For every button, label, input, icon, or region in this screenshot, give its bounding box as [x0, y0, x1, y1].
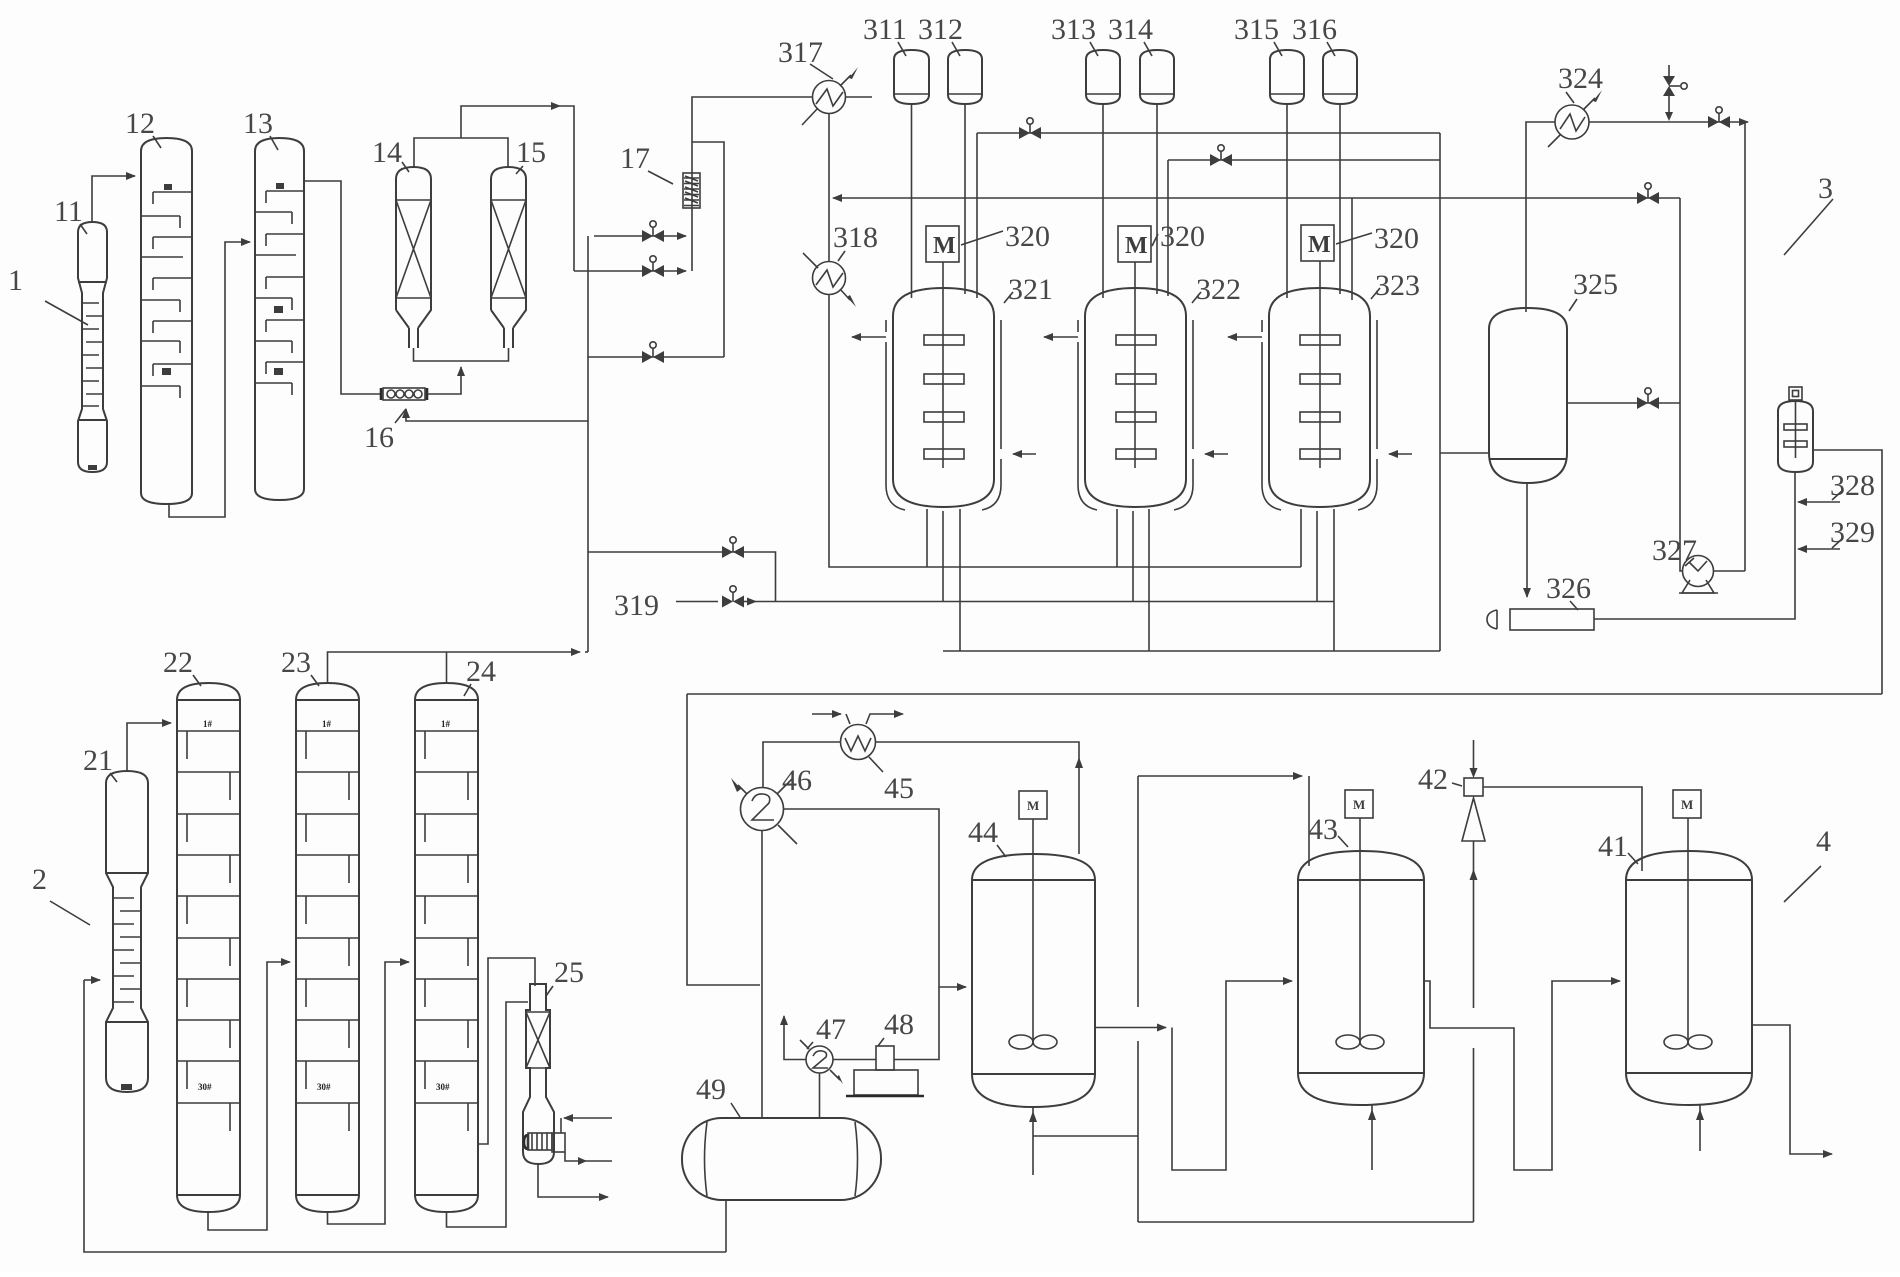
wire 313 to reactor 322 — [1102, 104, 1104, 298]
header B y160 with valve — [1168, 159, 1440, 161]
wire 14/15 top header riser to HX 317 — [414, 138, 508, 167]
cyclone 42 — [1462, 778, 1485, 841]
reactor 322 bottom pipes — [1116, 509, 1118, 567]
svg-text:1: 1 — [8, 264, 23, 297]
wire 49 bottom drain — [725, 1200, 727, 1252]
agitator shaft 322 — [1134, 262, 1136, 468]
svg-text:M: M — [933, 233, 956, 259]
HX 45 utility arrows — [812, 713, 841, 715]
svg-text:324: 324 — [1558, 62, 1603, 95]
svg-text:45: 45 — [884, 772, 914, 805]
svg-text:319: 319 — [614, 589, 659, 622]
svg-text:312: 312 — [918, 13, 963, 46]
wire 319 long header y601.5 — [756, 601, 1334, 603]
feed 329 — [1798, 548, 1840, 550]
reactor 323 — [1262, 288, 1377, 510]
svg-text:44: 44 — [968, 816, 998, 849]
pump 327 — [1679, 556, 1718, 594]
agitated vessel (sampling pot) — [1778, 387, 1813, 472]
wire 24 top stub — [446, 652, 448, 683]
HX 317 — [802, 67, 858, 125]
vessel 316 — [1323, 50, 1357, 104]
motor M3 (320) — [1301, 225, 1334, 261]
jacket arrows 321 — [852, 336, 886, 338]
wire 45 right to 44 dome — [876, 742, 1080, 854]
wire 318 to jacket heating line y567 — [829, 295, 1301, 568]
wire 16 bottom feed — [406, 409, 588, 421]
column 13 — [255, 138, 304, 500]
reactor 321 bottom pipes — [926, 509, 928, 567]
wire 46 bottom to 49 — [761, 831, 763, 1119]
HX 45 — [841, 725, 876, 760]
wire frame top y694 — [687, 693, 1882, 695]
vessel 311 — [894, 50, 929, 104]
motor M1 (320) — [926, 226, 959, 262]
svg-text:49: 49 — [696, 1073, 726, 1106]
wire 44 bottom drain — [1032, 1107, 1034, 1175]
wire 16 outlet to columns 14/15 bottom header — [427, 367, 461, 394]
agitator 43 — [1359, 818, 1361, 1042]
wire 23 bottom to column 24 — [328, 962, 410, 1224]
wire 326 right to riser x1795 — [1594, 472, 1795, 619]
wire 312 to reactor 321 — [964, 104, 966, 294]
wire 311 to reactor 321 — [911, 104, 913, 298]
wire 42 top feed — [1473, 740, 1475, 774]
valve V3 line y357 — [588, 356, 724, 358]
wire 45 left to 46 — [763, 742, 841, 787]
wire feed into 21 — [84, 979, 100, 981]
agitator shaft 323 — [1319, 261, 1321, 468]
svg-text:317: 317 — [778, 36, 823, 69]
svg-text:316: 316 — [1292, 13, 1337, 46]
wire frame left x687 down and over to 49 — [687, 694, 760, 985]
svg-text:315: 315 — [1234, 13, 1279, 46]
svg-text:320: 320 — [1160, 220, 1205, 253]
column 14 — [396, 167, 431, 348]
wire 324 line down to pump 327 — [1744, 122, 1746, 571]
svg-text:318: 318 — [833, 221, 878, 254]
wire 47 right to 48 — [833, 1059, 876, 1061]
HX 324 — [1548, 90, 1602, 147]
vessel 315 — [1270, 50, 1304, 104]
wire branch to riser x724 — [692, 142, 724, 357]
wire 316 to reactor 323 — [1339, 104, 1341, 294]
svg-text:25: 25 — [554, 956, 584, 989]
wire 43 right to 41 left — [1424, 981, 1620, 1170]
svg-text:1#: 1# — [203, 719, 213, 729]
blower lines — [564, 1117, 612, 1119]
svg-text:13: 13 — [243, 107, 273, 140]
svg-text:323: 323 — [1375, 269, 1420, 302]
agitator shaft 321 — [942, 262, 944, 468]
svg-text:22: 22 — [163, 646, 193, 679]
wire 23 top stub to riser — [328, 652, 581, 683]
svg-text:24: 24 — [466, 655, 496, 688]
svg-text:2: 2 — [32, 863, 47, 896]
column 25 with blower — [523, 984, 565, 1164]
svg-text:320: 320 — [1005, 220, 1050, 253]
svg-text:326: 326 — [1546, 572, 1591, 605]
agitator 41 — [1687, 818, 1689, 1042]
reactor 323 bottom pipes — [1300, 509, 1302, 567]
svg-text:21: 21 — [83, 744, 113, 777]
svg-text:30#: 30# — [436, 1082, 450, 1092]
agitator 44 — [1032, 819, 1034, 1042]
HX 47 — [800, 1040, 843, 1084]
wire 41 right product out — [1752, 1025, 1832, 1154]
column 12 — [141, 138, 192, 504]
svg-text:311: 311 — [863, 13, 907, 46]
wire 24 bottom to column 25 feed — [447, 1002, 529, 1227]
column 15 — [491, 167, 526, 348]
wire 317 to 318 — [828, 114, 830, 262]
wire 41 bottom drain — [1699, 1105, 1701, 1151]
svg-text:48: 48 — [884, 1008, 914, 1041]
vessel 312 — [948, 50, 982, 104]
wire 13 side outlet to mixer 16 — [304, 181, 381, 394]
wire 314 to reactor 322 — [1156, 104, 1158, 294]
wire 324 left to 325 top — [1526, 122, 1555, 312]
vessel 325 — [1489, 308, 1567, 483]
wire 43 bottom drain — [1371, 1105, 1373, 1170]
wire 46 right to 44 feed — [784, 809, 967, 987]
svg-text:325: 325 — [1573, 268, 1618, 301]
wire 48 to 44 feed line — [894, 987, 939, 1060]
vessel 313 — [1086, 50, 1120, 104]
header A y133 with valve — [977, 132, 1440, 134]
svg-text:23: 23 — [281, 646, 311, 679]
svg-text:41: 41 — [1598, 830, 1628, 863]
svg-text:313: 313 — [1051, 13, 1096, 46]
valve on 324 line — [1708, 107, 1730, 128]
column 24 — [415, 683, 478, 1212]
svg-text:12: 12 — [125, 107, 155, 140]
wire 11 top to column 12 feed — [92, 176, 135, 222]
svg-text:17: 17 — [620, 142, 650, 175]
svg-text:30#: 30# — [317, 1082, 331, 1092]
wire 21 top to column 22 — [127, 723, 171, 771]
svg-text:M: M — [1027, 798, 1039, 813]
wire 47 left vent — [784, 1016, 806, 1060]
drum 49 — [682, 1118, 881, 1200]
svg-text:1#: 1# — [322, 719, 332, 729]
reactor 322 — [1078, 288, 1193, 510]
svg-text:314: 314 — [1108, 13, 1153, 46]
column 23 — [296, 683, 359, 1212]
wire pump ports — [1714, 570, 1746, 572]
svg-text:4: 4 — [1816, 825, 1831, 858]
valve V1 line y236 — [594, 235, 686, 237]
wire 315 to reactor 323 — [1286, 104, 1288, 298]
jacket arrows 322 — [1044, 336, 1078, 338]
mixer 16 — [381, 388, 427, 400]
wire 325 bottom to 326 — [1526, 483, 1528, 597]
drum 326 — [1487, 609, 1594, 630]
motor M44 — [1019, 791, 1047, 819]
wire recycle riser x1440 — [1439, 133, 1441, 651]
svg-text:M: M — [1125, 233, 1148, 259]
wire bottom return y1252 — [84, 980, 726, 1252]
wire pot right to frame riser — [1813, 450, 1882, 694]
wire y552 branch to 319 junction — [588, 552, 776, 602]
wire 12 bottom to column 13 feed — [169, 242, 250, 517]
column 22 — [177, 683, 240, 1212]
wire 325 right outlet valve y403 — [1567, 402, 1680, 404]
wire 42 right to 41 top — [1483, 787, 1642, 871]
wire 47 bottom to 49 — [819, 1073, 821, 1118]
motor M41 — [1673, 790, 1701, 818]
svg-text:11: 11 — [54, 195, 83, 228]
wire 325 feed branch y453 — [1440, 452, 1489, 454]
svg-text:16: 16 — [364, 421, 394, 454]
wire 24 side vapour to 25 top — [478, 958, 535, 1144]
jacket arrows 323 — [1228, 336, 1262, 338]
reactor 41 — [1626, 851, 1752, 1105]
reactor 44 — [972, 854, 1095, 1107]
weigh hopper 48 — [846, 1046, 924, 1096]
wire 14/15 bottom header — [414, 348, 509, 361]
svg-text:M: M — [1308, 232, 1331, 258]
wire 324 right line with valves — [1589, 121, 1748, 123]
wire 22 bottom to column 23 — [208, 962, 290, 1230]
header C y198 long with valve — [833, 197, 1680, 199]
svg-text:322: 322 — [1196, 273, 1241, 306]
svg-text:46: 46 — [782, 764, 812, 797]
svg-text:43: 43 — [1308, 813, 1338, 846]
wire header C corner down x1680 to pump — [1680, 198, 1683, 571]
valve V2 line y271 — [574, 270, 686, 272]
svg-text:30#: 30# — [198, 1082, 212, 1092]
svg-text:47: 47 — [816, 1013, 846, 1046]
vessel 314 — [1140, 50, 1174, 104]
wire bottom link y1222 — [1138, 1221, 1474, 1223]
wire vertical x588 main — [587, 236, 589, 652]
wire 42 bottom leg — [1473, 841, 1475, 1222]
svg-text:42: 42 — [1418, 763, 1448, 796]
HX 318 — [803, 253, 856, 307]
reactor 43 — [1298, 851, 1424, 1105]
feed 328 — [1798, 501, 1840, 503]
reactor 321 — [886, 288, 1001, 510]
svg-text:M: M — [1353, 797, 1365, 812]
wire riser up to x588 vertical — [585, 651, 588, 653]
svg-text:15: 15 — [516, 136, 546, 169]
wire 44 bottom to 43 top — [1033, 1135, 1138, 1137]
svg-text:M: M — [1681, 797, 1693, 812]
svg-text:3: 3 — [1818, 172, 1833, 205]
svg-text:320: 320 — [1374, 222, 1419, 255]
motor M43 — [1345, 790, 1373, 818]
wire recycle bottom y651 — [943, 650, 1440, 652]
HX 46 — [731, 778, 797, 844]
motor M2 (320) — [1118, 226, 1151, 262]
column 21 — [106, 771, 148, 1092]
svg-text:328: 328 — [1830, 469, 1875, 502]
filter 17 — [683, 173, 700, 208]
wire 44 right to 43 left — [1095, 1027, 1166, 1029]
column 11 — [78, 222, 107, 472]
svg-text:1#: 1# — [441, 719, 451, 729]
wire 317 right stub — [846, 96, 873, 98]
wire vertical through 17 — [692, 97, 813, 271]
svg-text:321: 321 — [1008, 273, 1053, 306]
svg-text:14: 14 — [372, 136, 402, 169]
valve relief vertical x1669 — [1663, 65, 1687, 121]
